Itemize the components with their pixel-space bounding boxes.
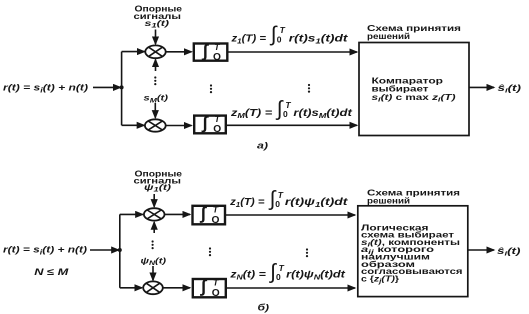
- svg-text:сигналы: сигналы: [134, 176, 182, 186]
- svg-text:∫: ∫: [201, 113, 209, 133]
- svg-text:zN(t) =: zN(t) =: [229, 269, 266, 281]
- wire multiplier M4 to integrator I4: [163, 287, 190, 289]
- svg-text:s1(t): s1(t): [145, 18, 170, 30]
- wire decision box B output: [468, 249, 494, 251]
- svg-text:0: 0: [283, 109, 288, 119]
- svg-text:0: 0: [275, 199, 280, 209]
- wire s1(t) into multiplier 1: [155, 30, 157, 45]
- svg-text:r(t)ψ1(t)dt: r(t)ψ1(t)dt: [285, 197, 348, 209]
- integrator I4 (fig b row 2): [193, 279, 226, 297]
- wire branch to multiplier M3 (fig b): [120, 213, 143, 215]
- wire branch to multiplier M4 (fig b): [120, 287, 142, 289]
- svg-text:∫: ∫: [199, 276, 207, 296]
- svg-text:O: O: [213, 52, 221, 63]
- wire multiplier M2 to integrator I2: [166, 125, 192, 127]
- wire stub arrow into multiplier M1 bottom: [155, 60, 157, 72]
- node junction (fig b): [118, 248, 122, 252]
- wire branch to multiplier M2 (fig a): [122, 124, 145, 126]
- decision box A: [359, 43, 469, 136]
- svg-text:N ≤ M: N ≤ M: [34, 267, 69, 278]
- svg-text:T: T: [215, 114, 221, 124]
- wire psi1(t) into multiplier M3: [153, 194, 155, 207]
- svg-text:O: O: [213, 124, 221, 135]
- node ellipsis left (fig b): [152, 240, 154, 249]
- label equation z1(T) (fig b): [229, 187, 348, 210]
- svg-text:0: 0: [276, 272, 281, 282]
- svg-text:r(t)sM(t)dt: r(t)sM(t)dt: [293, 108, 352, 120]
- wire branch vertical (fig a): [121, 52, 123, 126]
- svg-text:ŝi(t): ŝi(t): [497, 246, 521, 258]
- wire branch vertical (fig b): [119, 214, 121, 287]
- node junction (fig a): [120, 85, 124, 89]
- node ellipsis right (fig a): [308, 84, 310, 93]
- svg-text:ŝi(t): ŝi(t): [498, 83, 522, 95]
- wire psiN(t) into multiplier M4: [152, 266, 154, 280]
- svg-text:r(t)ψN(t)dt: r(t)ψN(t)dt: [286, 269, 346, 281]
- svg-text:0: 0: [277, 35, 282, 45]
- wire integrator I3 to decision box B: [226, 214, 356, 216]
- multiplier M2 (fig a row 2): [145, 119, 166, 131]
- multiplier M4 (fig b row 2): [143, 281, 163, 294]
- svg-text:z1(T) =: z1(T) =: [230, 34, 266, 46]
- svg-text:z1(T) =: z1(T) =: [229, 197, 265, 209]
- svg-text:T: T: [213, 205, 219, 215]
- node ellipsis middle (fig a): [210, 84, 212, 93]
- integrator I1 (fig a row 1): [194, 44, 228, 61]
- svg-text:б): б): [258, 302, 270, 313]
- integrator I3 (fig b row 1): [193, 206, 226, 225]
- label equation zN(t) (fig b): [229, 261, 346, 284]
- wire stub arrow into multiplier M3 bottom: [153, 222, 155, 233]
- label equation z1(T) (fig a): [230, 23, 348, 46]
- svg-text:r(t)s1(t)dt: r(t)s1(t)dt: [289, 34, 349, 46]
- svg-text:r(t) = si(t) + n(t): r(t) = si(t) + n(t): [3, 245, 87, 257]
- svg-text:T: T: [213, 278, 219, 288]
- wire integrator I2 to decision box A: [227, 124, 357, 126]
- wire integrator I1 to decision box A: [229, 51, 358, 53]
- svg-text:а): а): [257, 141, 268, 152]
- decision box B: [358, 206, 468, 297]
- svg-text:решений: решений: [367, 31, 410, 41]
- svg-text:T: T: [280, 25, 286, 35]
- svg-text:si(t) с max zi(T): si(t) с max zi(T): [372, 92, 456, 104]
- label equation zM(T) (fig a): [230, 97, 353, 120]
- wire input to branch (fig b): [90, 249, 119, 251]
- wire integrator I4 to decision box B: [226, 287, 355, 289]
- node ellipsis middle (fig b): [209, 247, 211, 256]
- wire decision box A output: [469, 86, 494, 88]
- svg-text:ψN(t): ψN(t): [141, 255, 167, 267]
- svg-text:O: O: [212, 288, 220, 299]
- svg-text:O: O: [212, 215, 220, 226]
- multiplier M1 (fig a row 1): [145, 45, 165, 58]
- wire sM(t) into multiplier M2: [154, 103, 156, 118]
- svg-text:решений: решений: [367, 195, 410, 205]
- wire branch to multiplier 1 (fig a): [122, 51, 145, 53]
- svg-text:zM(T) =: zM(T) =: [230, 108, 273, 120]
- wire multiplier M1 to integrator I1: [166, 51, 192, 53]
- svg-text:T: T: [214, 42, 220, 52]
- multiplier M3 (fig b row 1): [144, 208, 165, 220]
- wire input to branch (fig a): [93, 86, 121, 88]
- node ellipsis left (fig a): [154, 76, 156, 85]
- wire multiplier M3 to integrator I3: [165, 213, 191, 215]
- node ellipsis right (fig b): [306, 248, 308, 257]
- svg-text:с {zj(T)}: с {zj(T)}: [361, 274, 400, 285]
- svg-text:sM(t): sM(t): [144, 93, 169, 105]
- integrator I2 (fig a row 2): [194, 116, 226, 134]
- svg-text:r(t) = si(t) + n(t): r(t) = si(t) + n(t): [3, 83, 88, 95]
